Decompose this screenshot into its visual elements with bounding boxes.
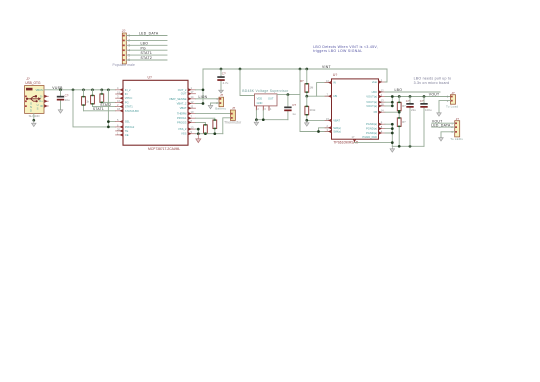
U2 pin numbers <box>257 107 272 111</box>
svg-text:C?: C? <box>292 103 296 107</box>
pin J2 D- <box>44 95 48 97</box>
svg-text:STAT1: STAT1 <box>141 51 153 55</box>
svg-text:J?: J? <box>451 91 455 95</box>
svg-text:G: G <box>30 102 32 106</box>
svg-text:3.3v on micro board: 3.3v on micro board <box>414 81 450 85</box>
junction OUT <box>202 88 205 91</box>
junction VOUT c <box>391 105 394 108</box>
capacitor C3 <box>284 95 296 120</box>
svg-text:PGND(a): PGND(a) <box>366 127 377 131</box>
svg-text:LBO: LBO <box>141 41 149 45</box>
node stub under C2 <box>219 90 224 93</box>
junction rail-supervisor <box>239 68 242 71</box>
U3 left pin names <box>333 81 341 134</box>
svg-text:U?: U? <box>333 73 337 77</box>
wire output gnd rail <box>392 145 424 147</box>
junction U2 gnd2 <box>262 118 265 121</box>
wire U2 OUT <box>277 94 300 96</box>
junction LBI2 <box>305 119 308 122</box>
junction VUSB-R1 <box>82 88 85 91</box>
svg-text:PGND(a): PGND(a) <box>366 131 377 135</box>
svg-text:R?: R? <box>300 79 304 83</box>
op-amp U3 TPS61090 body <box>332 73 379 144</box>
wire EN branch <box>300 69 332 132</box>
connector J5 To LEDs <box>451 117 460 137</box>
junction EN <box>317 130 320 133</box>
junction VUSB-R2 <box>91 88 94 91</box>
svg-text:STAT2: STAT2 <box>100 103 111 107</box>
wire U1 OUT to rail <box>196 69 204 104</box>
junction rail-LBI <box>305 68 308 71</box>
wire J1 pin5 STAT1 <box>126 54 167 56</box>
wire VUSB rail <box>44 89 116 91</box>
svg-text:TE: TE <box>125 129 129 133</box>
wire VINT rail top <box>203 68 387 70</box>
junction VOUT-R <box>398 95 401 98</box>
svg-text:STAT1: STAT1 <box>93 107 104 111</box>
svg-text:N: N <box>30 105 32 109</box>
junction VSS1 <box>197 128 200 131</box>
svg-text:LED_DATA: LED_DATA <box>139 32 159 36</box>
junction VOUT a <box>391 95 394 98</box>
junction PGND pad <box>391 141 394 144</box>
capacitor C1 <box>57 90 70 110</box>
capacitor C5 <box>420 95 432 146</box>
junction at J2 gnd <box>32 119 35 122</box>
svg-text:VOUT(a): VOUT(a) <box>366 104 377 108</box>
wire thermistor return <box>223 118 231 134</box>
svg-text:3: 3 <box>128 44 130 48</box>
svg-text:VBUS: VBUS <box>35 88 43 92</box>
svg-text:LED_DATA: LED_DATA <box>431 124 451 128</box>
svg-text:VBAT: VBAT <box>180 106 187 110</box>
svg-text:LBO: LBO <box>395 88 403 92</box>
U1 left pin names <box>125 88 139 137</box>
svg-text:GND: GND <box>257 101 263 105</box>
svg-text:OUT: OUT <box>268 96 274 100</box>
op-amp U1 MCP73871 body <box>123 76 188 151</box>
wire LBI <box>307 95 332 97</box>
U1 right pin numbers <box>191 86 194 134</box>
svg-text:C?: C? <box>406 99 410 103</box>
junction VUSB-B <box>107 88 110 91</box>
U1 right pin stubs <box>188 88 196 135</box>
pin J2 ID <box>44 105 48 107</box>
svg-text:Thermistor: Thermistor <box>224 120 242 124</box>
op-amp U2 supervisor body <box>255 94 278 106</box>
wire VOUT rail <box>385 96 450 98</box>
U3 right pin names <box>362 80 377 139</box>
wire J4 pin2 gnd <box>439 101 450 113</box>
resistor R3 <box>100 90 104 103</box>
U3 right pin numbers <box>381 78 384 133</box>
svg-text:D-: D- <box>40 94 43 98</box>
svg-text:1: 1 <box>128 34 130 38</box>
svg-text:VOUT(a): VOUT(a) <box>366 95 377 99</box>
wire J1 pin4 PG <box>126 49 167 51</box>
svg-text:To Load: To Load <box>446 105 458 109</box>
svg-text:J?: J? <box>456 117 460 121</box>
svg-text:SW(a): SW(a) <box>333 126 341 130</box>
svg-text:VBAT_SENSE: VBAT_SENSE <box>169 97 187 101</box>
resistor R6 <box>300 69 314 96</box>
junction R4 gnd <box>204 132 207 135</box>
wire J5 VOUT <box>432 122 455 124</box>
junction rail-A <box>299 68 302 71</box>
junction B2 <box>107 126 110 129</box>
svg-text:4.7u: 4.7u <box>223 81 229 85</box>
U1 right pin names <box>169 88 187 136</box>
ground battery <box>208 105 213 108</box>
svg-text:VSS_2: VSS_2 <box>178 127 187 131</box>
svg-text:IN_2: IN_2 <box>125 88 131 92</box>
svg-text:STAT1: STAT1 <box>125 105 133 109</box>
ground U1 <box>196 134 201 143</box>
svg-text:LBI: LBI <box>333 94 337 98</box>
wire VUSB branch B <box>108 90 115 127</box>
junction gnd rail C4 <box>409 145 412 148</box>
ground under C1 <box>58 110 63 113</box>
svg-text:1u: 1u <box>292 112 296 116</box>
svg-text:D+: D+ <box>39 99 43 103</box>
svg-text:C?: C? <box>420 99 424 103</box>
resistor R7 <box>305 96 316 120</box>
svg-text:VSS: VSS <box>181 132 187 136</box>
junction gnd rail R9 <box>398 145 401 148</box>
SEC_C <box>325 69 463 152</box>
svg-text:triggers LBO LOW SIGNAL: triggers LBO LOW SIGNAL <box>313 49 362 53</box>
junction VUSB-R3 <box>100 88 103 91</box>
svg-text:IN: IN <box>125 92 128 96</box>
resistor R4 <box>204 125 208 134</box>
svg-text:VDD: VDD <box>257 96 263 100</box>
svg-text:MCP73871T-2CAI/ML: MCP73871T-2CAI/ML <box>148 147 180 151</box>
svg-text:J?: J? <box>232 106 236 110</box>
svg-text:VOUT(a): VOUT(a) <box>366 100 377 104</box>
svg-text:R?: R? <box>402 104 406 108</box>
U2 bottom pin stubs <box>256 106 269 110</box>
battery connector J3 <box>216 93 223 107</box>
wire U1 VSS rail <box>196 129 223 134</box>
svg-text:STAT2: STAT2 <box>141 56 153 60</box>
wire R3 to U1 <box>102 101 116 103</box>
wire U2 gnd rail <box>256 119 288 121</box>
svg-text:Battery: Battery <box>215 107 226 111</box>
junction PGND c <box>391 132 394 135</box>
junction R5 gnd <box>213 132 216 135</box>
svg-text:PG: PG <box>141 46 147 50</box>
wire J1 pin6 STAT2 <box>126 59 167 61</box>
svg-text:STAT2/LBO: STAT2/LBO <box>125 109 139 113</box>
svg-text:PGND_PAD: PGND_PAD <box>362 135 377 139</box>
junction PGND b <box>391 127 394 130</box>
capacitor C4 <box>406 95 416 146</box>
U3 right pin stubs <box>379 80 386 134</box>
junction FB <box>398 111 401 114</box>
wire J5 pin3 gnd <box>441 132 455 138</box>
resistor R5 <box>213 120 217 134</box>
wire VUSB long left branch <box>73 90 116 127</box>
svg-text:C?: C? <box>222 72 226 76</box>
ground under USB <box>32 120 37 126</box>
svg-text:10u: 10u <box>65 98 70 102</box>
resistor R9 <box>397 118 406 146</box>
svg-text:USB_OTG: USB_OTG <box>25 81 41 85</box>
svg-text:VINT: VINT <box>322 65 331 69</box>
svg-text:4: 4 <box>128 48 130 52</box>
svg-text:LBO: LBO <box>372 90 377 94</box>
thermistor RT1 <box>230 106 235 120</box>
junction B1 <box>107 120 110 123</box>
wire U1 PROG1 to R4 <box>196 118 215 120</box>
wire U1 PROG3 to R5 <box>196 122 206 124</box>
svg-text:IN: IN <box>333 81 336 85</box>
svg-text:VOUT: VOUT <box>429 93 440 97</box>
svg-text:5: 5 <box>128 53 130 57</box>
wire PGND bus <box>385 124 392 146</box>
svg-text:VPCC: VPCC <box>125 96 133 100</box>
svg-text:BD48K Voltage Supervisor: BD48K Voltage Supervisor <box>242 89 289 93</box>
junction U2 gnd1 <box>255 118 258 121</box>
pin J2 D+ <box>44 100 48 102</box>
U3 left pin stubs <box>325 81 332 133</box>
resistor terminal pads <box>82 83 400 134</box>
SEC_B <box>239 45 378 133</box>
svg-text:J?: J? <box>122 29 126 33</box>
svg-text:301k: 301k <box>310 108 316 112</box>
wire J2 GND down <box>33 114 35 121</box>
wire LBO <box>385 91 440 93</box>
U1 left pin numbers <box>117 86 120 135</box>
svg-text:PROG3: PROG3 <box>177 120 187 124</box>
svg-text:PG: PG <box>125 100 129 104</box>
USB connector J2 <box>25 77 44 113</box>
wire U2 gnd down <box>256 110 263 120</box>
resistor R1 <box>82 90 90 111</box>
svg-text:J?: J? <box>220 93 224 97</box>
svg-text:OUT: OUT <box>181 92 187 96</box>
svg-text:OUT_2: OUT_2 <box>178 88 187 92</box>
svg-text:VBAT_2: VBAT_2 <box>177 102 187 106</box>
svg-text:6: 6 <box>128 58 130 62</box>
svg-text:S: S <box>37 107 39 111</box>
wire R2 to U1 STAT2 <box>93 106 116 108</box>
svg-text:2: 2 <box>128 39 130 43</box>
pin U3 PGND_PAD bottom <box>354 139 356 142</box>
svg-text:PGND(a): PGND(a) <box>366 122 377 126</box>
capacitor C2 <box>217 68 228 91</box>
svg-text:FB: FB <box>374 110 378 114</box>
junction VUSB-A <box>72 88 75 91</box>
junction OUT2 <box>202 102 205 105</box>
wire FB <box>385 111 399 113</box>
svg-text:Populate male: Populate male <box>113 63 135 67</box>
wire U3 IN jog <box>317 83 332 97</box>
wire J1 pin2 <box>126 39 167 41</box>
svg-text:R?: R? <box>402 120 406 124</box>
wire J3 pin2 to ground <box>211 103 220 105</box>
resistor R8 <box>397 97 406 118</box>
svg-text:To LEDs: To LEDs <box>450 137 463 141</box>
junction VUSB-C1 <box>59 88 62 91</box>
wire J1 pin1 LED_DATA <box>126 35 167 37</box>
wire LION <box>196 98 220 100</box>
svg-text:CE: CE <box>125 133 129 137</box>
resistor R2 <box>91 90 95 107</box>
junction PGND a <box>391 123 394 126</box>
junction VSS2 <box>197 132 200 135</box>
U1 left pin stubs <box>116 88 123 137</box>
svg-text:22u: 22u <box>411 108 416 112</box>
U3 left pin numbers <box>326 79 329 132</box>
svg-text:VBAT: VBAT <box>333 118 340 122</box>
SEC_A <box>116 65 387 151</box>
wire J1 pin3 LBO <box>126 44 167 46</box>
svg-text:U?: U? <box>148 76 152 80</box>
svg-text:SEL: SEL <box>125 120 131 124</box>
ground J5 <box>439 138 444 141</box>
wire LBI2 <box>307 119 332 121</box>
junction VOUT b <box>391 101 394 104</box>
wire PGND_PAD to gnd bus <box>355 142 393 144</box>
wire THERM to thermistor <box>196 113 231 115</box>
wire supervisor VDD <box>240 69 255 96</box>
svg-text:100u: 100u <box>425 108 432 112</box>
svg-text:ID: ID <box>40 104 43 108</box>
ground LBI divider <box>305 120 310 126</box>
wire U3 VBAT to rail <box>385 69 387 82</box>
junction LBI <box>305 95 308 98</box>
pin header J1 <box>122 29 127 64</box>
svg-text:PROG1: PROG1 <box>177 116 187 120</box>
connector J4 To Load <box>447 91 456 104</box>
svg-text:D: D <box>30 109 32 113</box>
ground output <box>390 146 395 152</box>
svg-text:U: U <box>37 103 39 107</box>
svg-text:LION: LION <box>199 95 208 99</box>
ground U2 <box>254 120 259 126</box>
wire J5 LED_DATA <box>432 126 455 128</box>
svg-text:SW(a): SW(a) <box>333 130 341 134</box>
svg-text:PROG2: PROG2 <box>125 125 135 129</box>
svg-text:vbat: vbat <box>372 80 377 84</box>
junction OUT-C3 <box>287 93 290 96</box>
ground J4 <box>437 113 442 116</box>
wire R1 to U1 STAT1 <box>84 110 116 112</box>
wire VOUT pins bus <box>385 97 392 106</box>
svg-text:THERM: THERM <box>177 112 187 116</box>
